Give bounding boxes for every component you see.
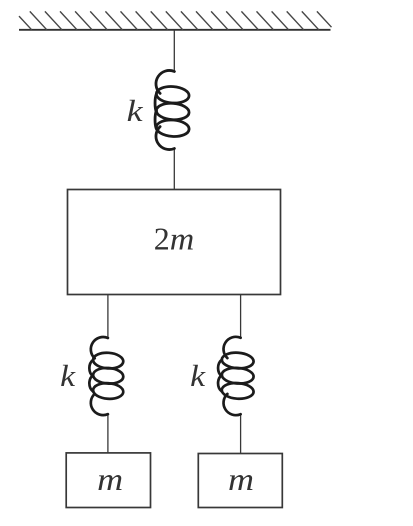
svg-text:2: 2 [154,220,170,256]
svg-text:k: k [60,358,76,393]
svg-text:m: m [228,462,254,497]
svg-text:m: m [97,462,123,497]
svg-text:k: k [127,93,144,128]
svg-text:m: m [170,220,195,256]
svg-text:k: k [190,358,206,393]
